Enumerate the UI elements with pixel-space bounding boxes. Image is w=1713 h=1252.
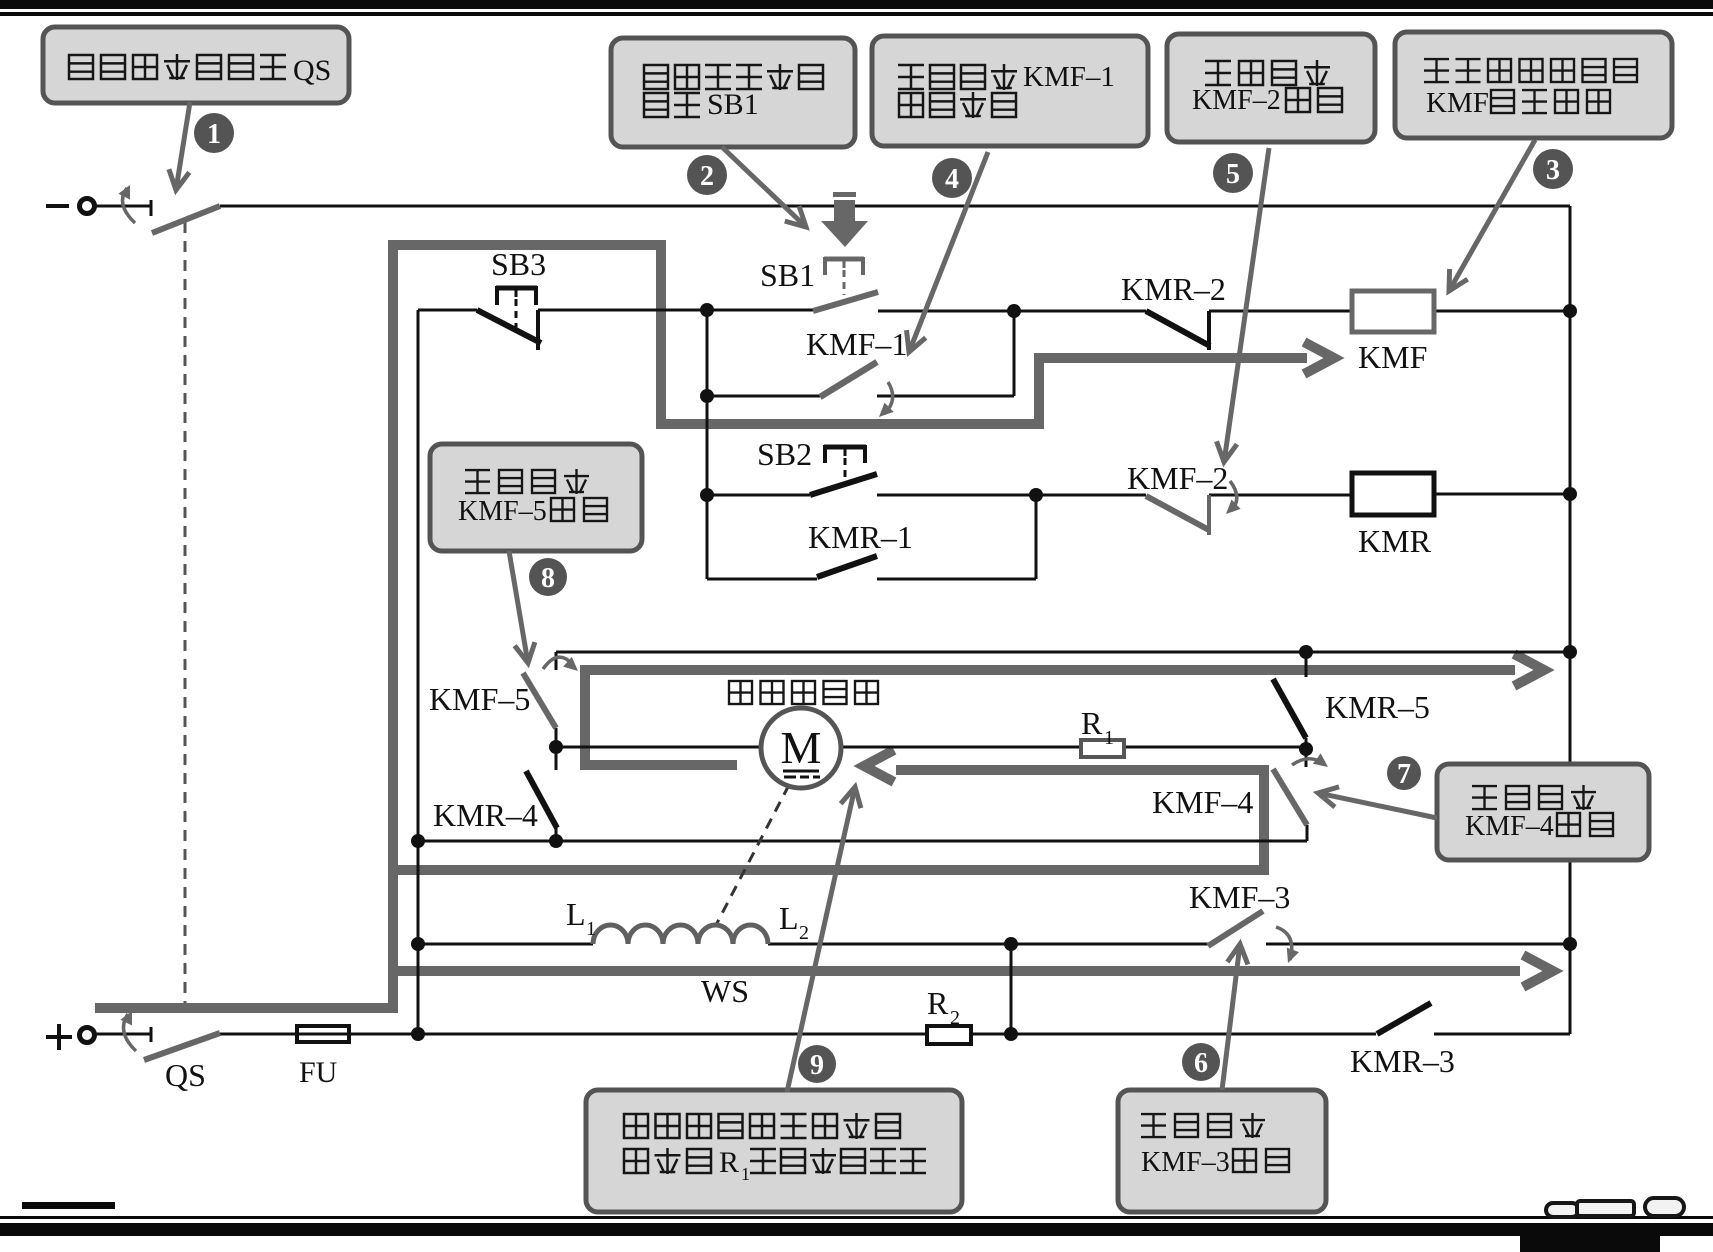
- node: KMF-5 lower: [549, 740, 563, 754]
- KMR-2 contact bar: [1207, 311, 1211, 350]
- pushbutton SB1 blade (gray): [813, 292, 878, 311]
- node: KMF coil to bus: [1563, 304, 1577, 318]
- fuse FU: [297, 1026, 349, 1042]
- wire: right bus vertical: [1569, 206, 1572, 1034]
- wire: KMF-1 row: [707, 395, 820, 398]
- svg-text:KMF–2: KMF–2: [1192, 85, 1281, 116]
- svg-text:4: 4: [945, 164, 959, 195]
- svg-text:KMR–1: KMR–1: [808, 519, 913, 555]
- callout box: NC contact KMF-2 opens: [1167, 34, 1375, 142]
- decorative chalk marks bottom right: [1546, 1198, 1684, 1217]
- svg-text:KMF: KMF: [1426, 87, 1489, 119]
- svg-text:2: 2: [950, 1007, 960, 1029]
- wire: SB1 to KMR-2: [878, 310, 1146, 313]
- KMF-1 closing arrow: [884, 382, 893, 414]
- svg-text:KMF–4: KMF–4: [1465, 811, 1554, 842]
- QS mechanical linkage (dashed): [184, 222, 187, 1003]
- contact KMF-4 blade (gray, closing): [1273, 769, 1307, 825]
- contact KMR-2 blade (NC): [1146, 311, 1210, 346]
- wire: SB3 row: [418, 309, 477, 312]
- node: left rail / return bus: [411, 834, 425, 848]
- wire: top negative rail: [95, 205, 151, 208]
- node: SB3/SB1 junction: [700, 303, 714, 317]
- callout box: NO contact KMF-1 closes self-latch: [872, 36, 1148, 146]
- svg-text:R: R: [927, 985, 949, 1021]
- arrow from box 5 to KMF-2: [1225, 148, 1269, 458]
- callout box: forward DC contactor KMF coil energized: [1395, 32, 1672, 138]
- wire: KMR-1 row: [707, 578, 817, 581]
- node: KMR-1 latch junction: [1029, 488, 1043, 502]
- svg-text:2: 2: [799, 922, 809, 944]
- arrow from box 8 to KMF-5: [509, 551, 527, 659]
- step number 9: [798, 1045, 836, 1083]
- arrow from box 4 to KMF-1: [911, 152, 989, 348]
- current path B: motor left terminal to right bus (thick gray): [585, 670, 1515, 765]
- current path C: lower bus to motor right terminal via KMF-4 (thick gray): [393, 770, 1264, 870]
- wire: field winding row: [418, 943, 593, 946]
- svg-text:KMF–4: KMF–4: [1152, 784, 1253, 820]
- callout box: NO contact KMF-3 closes: [1118, 1090, 1326, 1212]
- wire: KMR-5 leads: [1305, 652, 1308, 677]
- svg-text:1: 1: [207, 119, 221, 150]
- KMF-4 closing arrow: [1292, 759, 1324, 765]
- callout box: NO contact KMF-4 closes: [1437, 764, 1649, 860]
- svg-text:FU: FU: [299, 1056, 338, 1089]
- positive supply terminal: [46, 1035, 72, 1039]
- switch QS upper pole (gray blade): [152, 206, 220, 233]
- node: field row / right bus: [1563, 937, 1577, 951]
- contact KMR-4 blade (NO open): [526, 771, 557, 828]
- motor-field mechanical linkage (dashed): [716, 785, 789, 925]
- node: KMR-5 lower: [1299, 742, 1313, 756]
- arrow from box 2 to SB1: [722, 147, 803, 224]
- wire: KMF-4 bottom lead: [1306, 825, 1309, 841]
- wire: KMR-4 top lead: [555, 747, 558, 770]
- coil KMF (gray, energized): [1352, 291, 1434, 332]
- step number 1: [194, 113, 234, 153]
- wire: KMF coil to right bus: [1434, 310, 1570, 313]
- KMF-2 opening arrow: [1230, 481, 1237, 511]
- resistor R2: [927, 1026, 971, 1044]
- arrow from box 9 to motor: [787, 791, 854, 1092]
- callout box: press forward start button SB1: [611, 38, 855, 147]
- contact KMF-1 blade (gray, closing): [820, 362, 877, 397]
- arrow from box 1 to QS: [177, 102, 190, 186]
- svg-text:KMF–3: KMF–3: [1189, 879, 1290, 915]
- svg-text:6: 6: [1194, 1048, 1208, 1079]
- svg-text:KMF–1: KMF–1: [806, 326, 907, 362]
- svg-text:KMR–5: KMR–5: [1325, 689, 1430, 725]
- wire: left control rail vertical: [417, 310, 420, 1034]
- wire: armature line through motor and R1: [556, 746, 1306, 749]
- svg-text:SB1: SB1: [707, 88, 759, 121]
- svg-text:8: 8: [541, 563, 555, 594]
- KMF-3 closing arrow: [1276, 927, 1292, 960]
- svg-text:SB3: SB3: [491, 246, 546, 282]
- callout box: motor starts forward through series resistor R1: [586, 1090, 962, 1212]
- node: SB2 branch: [700, 488, 714, 502]
- svg-text:M: M: [781, 722, 822, 773]
- pushbutton SB2 (NO) cap: [824, 445, 866, 450]
- svg-text:L: L: [779, 900, 799, 936]
- pushbutton SB1 (NO start, pressed, gray) cap: [824, 257, 864, 262]
- bottom-left page mark: [22, 1202, 115, 1209]
- step number 7: [1387, 756, 1421, 790]
- svg-text:KMR–4: KMR–4: [433, 797, 538, 833]
- switch QS lower pole (gray blade): [144, 1033, 220, 1060]
- svg-text:KMF–5: KMF–5: [429, 681, 530, 717]
- svg-text:3: 3: [1546, 155, 1560, 186]
- QS lower closing arrow: [124, 1014, 137, 1051]
- wire: lower armature return bus: [418, 840, 1307, 843]
- label: DC motor (Chinese): [729, 681, 752, 704]
- svg-text:R: R: [1081, 705, 1103, 741]
- callout box: NO contact KMF-5 closes: [430, 444, 642, 551]
- wire: KMF-2 to KMR coil: [1209, 494, 1352, 497]
- wire: KMF-1 up-link: [1013, 311, 1016, 396]
- current path A: + terminal to KMF coil (thick gray): [95, 245, 1307, 1008]
- starting resistor R1 (gray): [1081, 740, 1124, 757]
- svg-text:2: 2: [700, 161, 714, 192]
- field inductor L1-L2 (WS): [593, 925, 768, 944]
- arrow from box 6 to KMF-3: [1222, 948, 1240, 1090]
- pushbutton SB3 contact bar: [536, 310, 540, 350]
- wire: KMF-5 leads: [555, 652, 558, 670]
- step number 3: [1533, 149, 1573, 189]
- QS upper closing arrow: [123, 188, 136, 223]
- contact KMR-1 blade (NO): [817, 556, 877, 577]
- KMF-2 contact bar (gray): [1207, 495, 1211, 535]
- svg-text:SB2: SB2: [757, 436, 812, 472]
- svg-text:1: 1: [586, 918, 596, 940]
- svg-text:QS: QS: [165, 1057, 206, 1093]
- step number 6: [1182, 1043, 1220, 1081]
- wire: KMF-4 top lead tick: [1305, 749, 1308, 767]
- motor M (DC motor): [761, 708, 841, 788]
- contact KMF-2 blade (NC, gray opening): [1146, 496, 1209, 530]
- contact KMF-5 blade (gray, closing): [523, 673, 556, 728]
- negative supply terminal: [46, 204, 69, 208]
- node: KMF-1 latch junction: [1007, 304, 1021, 318]
- page bottom border bar: [0, 1216, 1713, 1219]
- svg-text:QS: QS: [293, 54, 331, 87]
- svg-text:KMF–5: KMF–5: [458, 496, 547, 527]
- arrow from box 3 to KMF coil: [1451, 140, 1535, 288]
- node: KMR coil to bus: [1563, 487, 1577, 501]
- node: KMR-5 upper: [1299, 645, 1313, 659]
- svg-text:5: 5: [1226, 159, 1240, 190]
- contact KMF-3 blade (gray, closing): [1208, 911, 1263, 946]
- pushbutton SB3 blade: [477, 310, 541, 343]
- pushbutton SB2 blade: [810, 474, 877, 495]
- svg-text:KMF–2: KMF–2: [1127, 460, 1228, 496]
- svg-text:L: L: [566, 896, 586, 932]
- svg-text:R: R: [719, 1146, 739, 1179]
- node: field row / R2 bypass: [1004, 937, 1018, 951]
- svg-text:7: 7: [1397, 759, 1411, 790]
- node: KMF-1 branch: [700, 389, 714, 403]
- step number 2: [687, 155, 727, 195]
- node: KMR-4 lower: [549, 834, 563, 848]
- contact KMR-5 blade (NO open): [1273, 679, 1306, 738]
- svg-text:KMF–3: KMF–3: [1141, 1147, 1230, 1178]
- page top border bar: [0, 0, 1713, 9]
- svg-text:KMR–2: KMR–2: [1121, 271, 1226, 307]
- svg-text:KMF–1: KMF–1: [1023, 61, 1115, 93]
- svg-text:9: 9: [810, 1050, 824, 1081]
- wire: KMR-1 up-link: [1035, 495, 1038, 579]
- contact KMR-3 blade (NO open): [1377, 1003, 1431, 1034]
- svg-text:SB1: SB1: [760, 257, 815, 293]
- KMF-5 closing arrow: [543, 657, 572, 669]
- callout box: close main switch QS: [43, 27, 349, 103]
- coil KMR: [1352, 473, 1434, 515]
- node: left rail / field row: [411, 937, 425, 951]
- svg-text:1: 1: [1104, 727, 1114, 749]
- node: R2 / bottom rail: [1004, 1027, 1018, 1041]
- wire: KMR coil to right bus: [1434, 493, 1570, 496]
- arrow from box 7 to KMF-4: [1322, 794, 1437, 818]
- svg-text:WS: WS: [701, 973, 749, 1009]
- svg-text:KMR: KMR: [1358, 523, 1432, 559]
- step number 8: [529, 558, 567, 596]
- svg-text:KMR–3: KMR–3: [1350, 1043, 1455, 1079]
- wire: SB2 row: [707, 494, 810, 497]
- current path D: field winding bus to right bus via KMF-3 (thick gray): [393, 966, 1520, 976]
- step number 4: [932, 158, 972, 198]
- wire: armature upper bus: [556, 651, 1570, 654]
- node: armature bus / right bus: [1563, 645, 1577, 659]
- wire: R2 bypass vertical: [1010, 944, 1013, 1034]
- svg-text:1: 1: [741, 1164, 750, 1184]
- svg-text:KMF: KMF: [1358, 339, 1427, 375]
- node: left rail / bottom rail: [411, 1027, 425, 1041]
- wire: KMR-2 to KMF coil: [1209, 310, 1352, 313]
- press arrow on SB1: [833, 192, 856, 197]
- pushbutton SB3 (NC stop) cap: [496, 286, 537, 291]
- wire: bottom positive rail: [94, 1033, 151, 1036]
- step number 5: [1213, 153, 1253, 193]
- wire: KMF-1 branch vertical: [706, 310, 709, 579]
